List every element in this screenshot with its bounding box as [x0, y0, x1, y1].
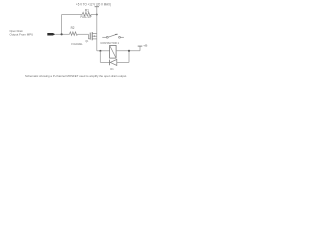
resistor R2	[70, 32, 78, 36]
svg-text:R2: R2	[71, 26, 75, 30]
node A junction dot	[61, 33, 63, 35]
supply terminal bar	[95, 6, 99, 8]
node diode left leg junction	[99, 50, 101, 52]
wire top rail left	[62, 14, 83, 16]
contactor coil box	[110, 45, 117, 58]
contactor contacts lever	[108, 35, 116, 38]
wire coil to +B	[116, 50, 140, 52]
transistor Q1 body stub with arrow	[92, 35, 96, 37]
wire coil feed horizontal	[97, 50, 110, 52]
svg-text:+B: +B	[143, 44, 147, 48]
contactor contacts left terminal	[106, 36, 108, 38]
contactor contacts right terminal	[119, 36, 121, 38]
wire arrow to node A	[55, 33, 69, 35]
contactor contacts lever tip	[115, 33, 117, 35]
svg-text:+5 V TO +12 V (20 V MAX): +5 V TO +12 V (20 V MAX)	[76, 3, 111, 7]
wire top rail right	[91, 14, 97, 16]
svg-text:Q1: Q1	[85, 39, 88, 43]
wire diode bottom left	[100, 61, 109, 63]
transistor Q1 drain stub	[92, 32, 96, 34]
svg-text:Output From MPU: Output From MPU	[10, 32, 34, 36]
wire diode left leg	[99, 51, 101, 63]
+B terminal bar	[138, 45, 143, 47]
node supply / R1 junction	[96, 14, 98, 16]
wire R2 to gate	[78, 33, 89, 35]
transistor Q1 source stub	[92, 38, 96, 40]
transistor Q1 channel bar	[91, 32, 93, 40]
svg-text:P-CHANNEL: P-CHANNEL	[71, 42, 83, 46]
wire gate drop	[88, 34, 90, 39]
contactor coil diagonal	[110, 45, 117, 58]
diode D1 triangle	[110, 59, 117, 65]
wire supply vertical	[96, 7, 98, 51]
resistor R1 pull-up	[82, 12, 91, 16]
wire diode bottom right	[117, 61, 129, 63]
contactor contacts switch left stub	[102, 36, 106, 38]
svg-text:D1: D1	[110, 67, 114, 71]
svg-text:R1: R1	[85, 8, 89, 12]
wire diode right leg	[128, 51, 130, 63]
contactor contacts right stub	[120, 36, 124, 38]
transistor Q1 gate bar	[89, 33, 91, 40]
svg-text:PULL-UP: PULL-UP	[80, 15, 91, 19]
svg-text:CONTACTOR 1: CONTACTOR 1	[100, 41, 119, 45]
diode D1 cathode bar	[109, 60, 111, 66]
wire +B riser	[139, 46, 141, 51]
node diode right leg junction	[128, 50, 130, 52]
arrow MPU output	[47, 33, 55, 36]
svg-text:Schematic showing a P-channel: Schematic showing a P-channel MOSFET use…	[25, 74, 127, 78]
wire pull-up drop	[61, 15, 63, 35]
